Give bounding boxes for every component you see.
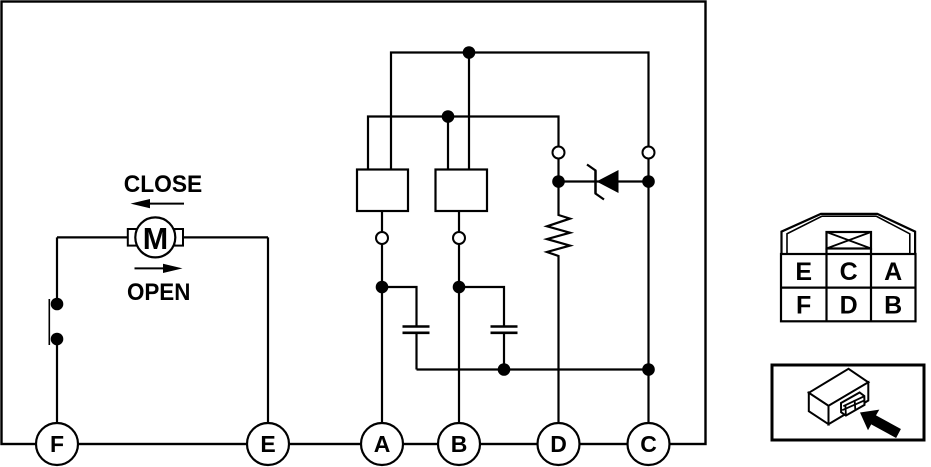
svg-text:A: A [884,258,902,286]
node junction top bus [463,46,476,59]
node junction B branch [453,281,466,294]
svg-text:B: B [884,292,902,320]
node junction second bus [442,110,455,123]
node junction zener left [552,175,565,188]
terminal A [361,423,403,465]
arrow close (points left) [148,203,184,205]
wire top bus [391,53,649,170]
svg-text:C: C [840,258,858,286]
terminal E [247,423,289,465]
svg-text:E: E [795,258,812,286]
switch S1 contact dot upper [51,298,64,311]
contact terminal open circle D branch [553,147,565,159]
wire zener node to terminal C [647,182,649,424]
relay body 3D left face [809,393,829,424]
motor M left brush [128,229,137,246]
svg-text:F: F [50,431,64,457]
svg-text:M: M [143,222,168,256]
wire C2 to bottom bus [503,334,505,370]
svg-text:A: A [374,431,391,457]
switch S1 blade [48,299,50,345]
relay coil K1 [357,170,408,212]
wire from second bus to coil K2 [447,117,449,170]
svg-text:D: D [550,431,567,457]
contact terminal open circle below K1 [376,232,388,244]
motor M body [135,217,175,257]
wire zener horizontal [559,180,649,182]
wire bottom bus [417,368,649,370]
arrow open (points right) [135,267,167,269]
connector pinout grid [781,254,916,321]
wire motor loop horizontal [57,236,268,238]
svg-text:B: B [451,431,468,457]
svg-text:C: C [640,431,657,457]
svg-text:D: D [840,292,858,320]
wire node to terminal A [381,287,383,423]
wire from top bus to coil K2 [468,53,470,170]
svg-text:F: F [796,292,811,320]
relay connector block [841,393,865,416]
wire node to terminal B [458,287,460,423]
component outline box [2,2,706,445]
wire branch to capacitor C2 [459,287,504,326]
wire C1 to bottom bus [415,334,417,370]
connector pinout key box with X [827,232,872,249]
svg-text:CLOSE: CLOSE [124,171,203,198]
node junction zener right [642,175,655,188]
relay body 3D right face [829,382,869,424]
motor M right brush [174,229,183,246]
wire second bus [368,117,559,170]
wire left vertical lower [56,339,58,423]
wire branch to capacitor C1 [382,287,417,326]
wire contact to node B [458,244,460,287]
svg-text:E: E [260,431,275,457]
resistor R1 [547,182,570,424]
switch S1 contact dot lower [51,333,64,346]
wire C branch circle to zener node [647,159,649,182]
capacitor C2 [491,325,518,328]
node junction bottom bus C2 [498,363,511,376]
zener diode Z1 [597,170,619,193]
location callout box [772,365,924,440]
relay body 3D top face [809,369,869,406]
terminal D [538,423,580,465]
contact terminal open circle C branch [643,147,655,159]
wire left vertical upper [56,237,58,304]
svg-text:OPEN: OPEN [127,279,191,306]
connector pinout housing outer roof [782,214,916,254]
terminal F [36,423,78,465]
contact terminal open circle below K2 [453,232,465,244]
node junction A branch [376,281,389,294]
wire K2 to contact [458,211,460,232]
wire contact to node A [381,244,383,287]
wire right vertical to E [267,237,269,423]
node junction bottom bus C wire [642,363,655,376]
connector pinout housing inner roof [787,216,910,254]
terminal C [628,423,670,465]
arrow pointer [860,410,901,438]
terminal B [438,423,480,465]
wire circle to zener node left [557,159,559,182]
relay coil K2 [436,170,488,212]
capacitor C1 [403,325,430,328]
wire K1 to contact [381,211,383,232]
